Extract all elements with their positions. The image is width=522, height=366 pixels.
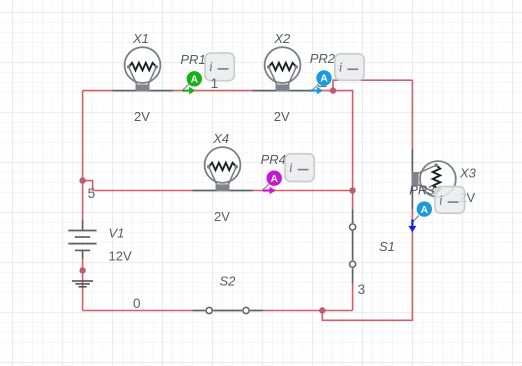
svg-text:2V: 2V <box>274 109 290 124</box>
wire: junction up and right to right vertical rail <box>333 80 412 90</box>
svg-text:2V: 2V <box>214 209 230 224</box>
wire: node 5 jog from left vertical to middle rail <box>83 181 93 191</box>
svg-text:1: 1 <box>211 76 219 91</box>
junction node at PR2 output <box>330 87 336 93</box>
svg-text:3: 3 <box>358 282 366 297</box>
svg-text:A: A <box>271 174 279 185</box>
svg-text:A: A <box>421 205 429 216</box>
svg-text:PR2: PR2 <box>310 51 336 66</box>
wire: S1 vertical down to bottom rail <box>352 191 354 311</box>
svg-text:5: 5 <box>88 186 96 201</box>
svg-text:A: A <box>191 75 199 86</box>
junction node at S1 / middle rail <box>349 187 355 193</box>
switch S1 (vertical) <box>350 210 356 284</box>
svg-text:X3: X3 <box>459 166 477 181</box>
wire: battery bottom to ground junction <box>82 259 84 311</box>
junction node 5 <box>79 177 85 183</box>
probe PR4 <box>261 152 315 194</box>
svg-text:A: A <box>320 74 328 85</box>
svg-text:i: i <box>439 192 443 207</box>
lamp X4 <box>193 147 253 191</box>
wire: left vertical from top rail down to battery top <box>82 91 84 220</box>
probe PR2 <box>310 51 364 95</box>
svg-text:i: i <box>339 60 343 75</box>
svg-text:X1: X1 <box>132 31 149 46</box>
lamp X3 (rotated, on right rail) <box>412 149 456 209</box>
svg-text:2V: 2V <box>134 109 150 124</box>
svg-text:PR4: PR4 <box>261 152 286 167</box>
junction node on bottom rail <box>319 307 325 313</box>
svg-text:S2: S2 <box>220 274 237 289</box>
switch S2 <box>193 307 263 313</box>
svg-text:X2: X2 <box>273 31 291 46</box>
junction node at ground <box>79 267 85 273</box>
svg-text:0: 0 <box>133 296 141 311</box>
svg-text:X4: X4 <box>212 131 229 146</box>
svg-text:PR3: PR3 <box>409 183 435 198</box>
svg-text:12V: 12V <box>109 249 132 264</box>
wire: junction to S1 branch corner then down <box>333 91 353 191</box>
svg-text:PR1: PR1 <box>180 52 205 67</box>
wire: top rail from top-left corner to junction near PR2 <box>83 90 333 92</box>
lamp X2 <box>253 47 313 91</box>
svg-text:i: i <box>209 59 213 74</box>
wire: bottom rail <box>83 310 353 312</box>
ground <box>72 281 93 287</box>
svg-text:S1: S1 <box>379 239 395 254</box>
svg-text:i: i <box>289 160 293 175</box>
probe PR3 (vertical, arrow down) <box>408 183 464 233</box>
wire: middle rail to S1 junction <box>93 190 353 192</box>
lamp X1 <box>113 47 173 91</box>
battery V1 <box>68 220 96 259</box>
wire: right vertical rail down through X3 to bottom loop <box>322 80 412 320</box>
probe PR1 <box>180 52 234 95</box>
svg-text:V1: V1 <box>109 225 125 240</box>
